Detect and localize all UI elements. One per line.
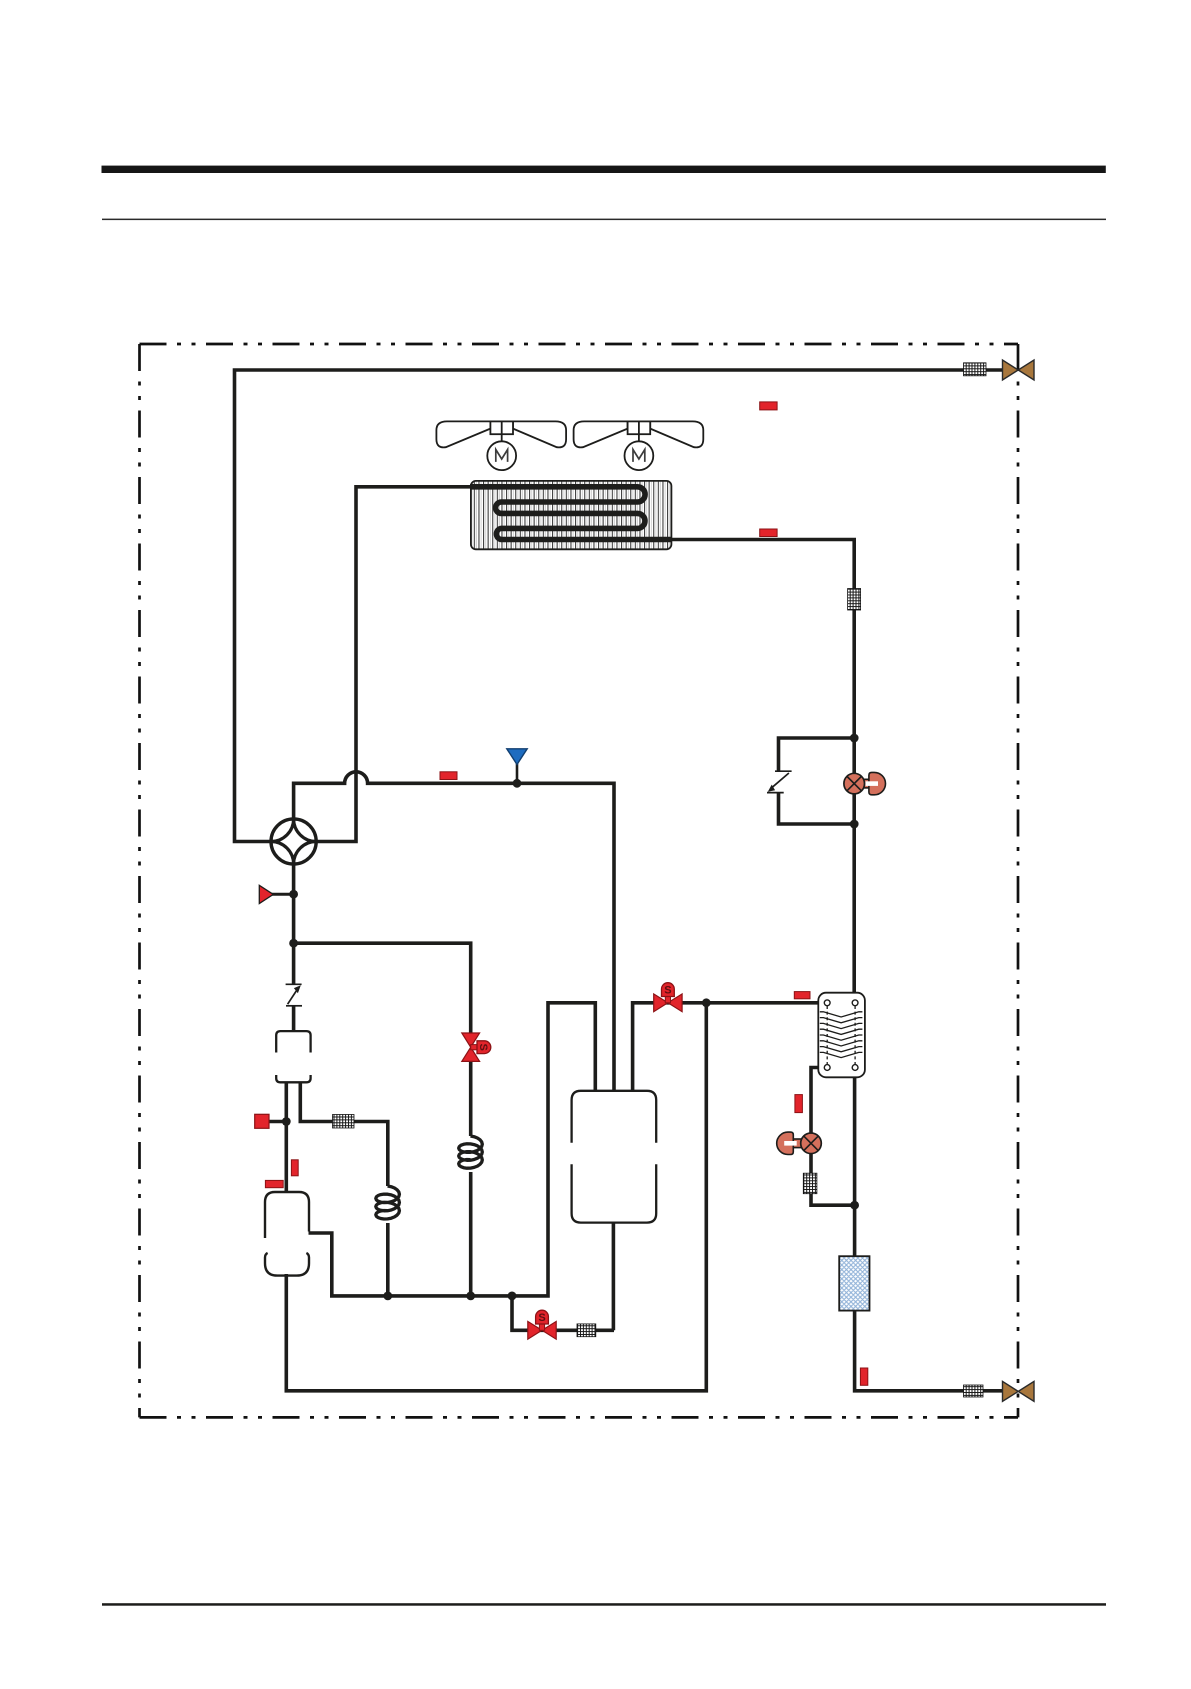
page rule bottom — [102, 1603, 1106, 1606]
wire muffler to heater coil branch — [300, 1082, 388, 1296]
svg-text:S: S — [477, 1044, 489, 1051]
node HX liquid join — [850, 1201, 859, 1210]
wire red square stub — [268, 1120, 288, 1124]
wire oil return bottom — [512, 1223, 614, 1331]
node check valve tee — [289, 890, 298, 899]
page rule thin top — [102, 219, 1106, 221]
fan blade right F2 — [650, 421, 703, 447]
fan blade left F2 — [574, 421, 628, 447]
tick top discharge — [760, 402, 777, 410]
tick HX inlet — [794, 992, 810, 999]
tick condenser outlet — [760, 529, 777, 537]
motor M2 — [625, 441, 654, 470]
tick liquid line bottom — [860, 1368, 867, 1385]
wire receiver top right leg — [286, 1003, 827, 1391]
fan hub F1 — [490, 421, 513, 434]
wire condenser outlet right run — [670, 540, 854, 1002]
node hot gas / funnel — [513, 779, 522, 788]
node receiver header tee — [702, 998, 711, 1007]
tick HX outlet vertical — [795, 1095, 803, 1113]
fan hub F2 — [628, 421, 651, 434]
fan blade left F1 — [436, 421, 490, 447]
node bypass top — [850, 734, 859, 743]
node injection branch tee — [289, 939, 298, 948]
enclosure dash-dot border — [140, 344, 1019, 1417]
motor M1 — [487, 441, 516, 470]
wire bypass loop — [779, 738, 855, 824]
tick hot gas header — [440, 772, 457, 780]
wire check valve stub — [271, 893, 294, 896]
wire muffler to compressor — [284, 1082, 288, 1192]
tick suction vertical — [291, 1160, 298, 1176]
node gauge square tee — [282, 1117, 291, 1126]
condenser serpentine tube — [470, 487, 671, 540]
node injection tee bottom — [466, 1292, 475, 1301]
tick suction horizontal — [265, 1180, 283, 1187]
wire 4way bottom to suction line — [292, 864, 296, 1032]
svg-text:S: S — [664, 985, 671, 997]
fan blade right F1 — [513, 421, 566, 447]
node heater coil tee — [383, 1292, 392, 1301]
wire 4way top port to hot gas header with hop — [294, 772, 614, 1091]
node oil line tee — [508, 1292, 517, 1301]
wire discharge top run — [235, 370, 1004, 842]
wire branch to liquid injection — [294, 943, 471, 1296]
svg-text:S: S — [538, 1312, 545, 1324]
wire compressor discharge — [309, 1003, 596, 1296]
wire 4way right port to condenser inlet — [316, 487, 474, 842]
wire HX liquid out — [811, 1068, 1003, 1391]
page rule thick top — [102, 166, 1106, 173]
node bypass bottom — [850, 820, 859, 829]
